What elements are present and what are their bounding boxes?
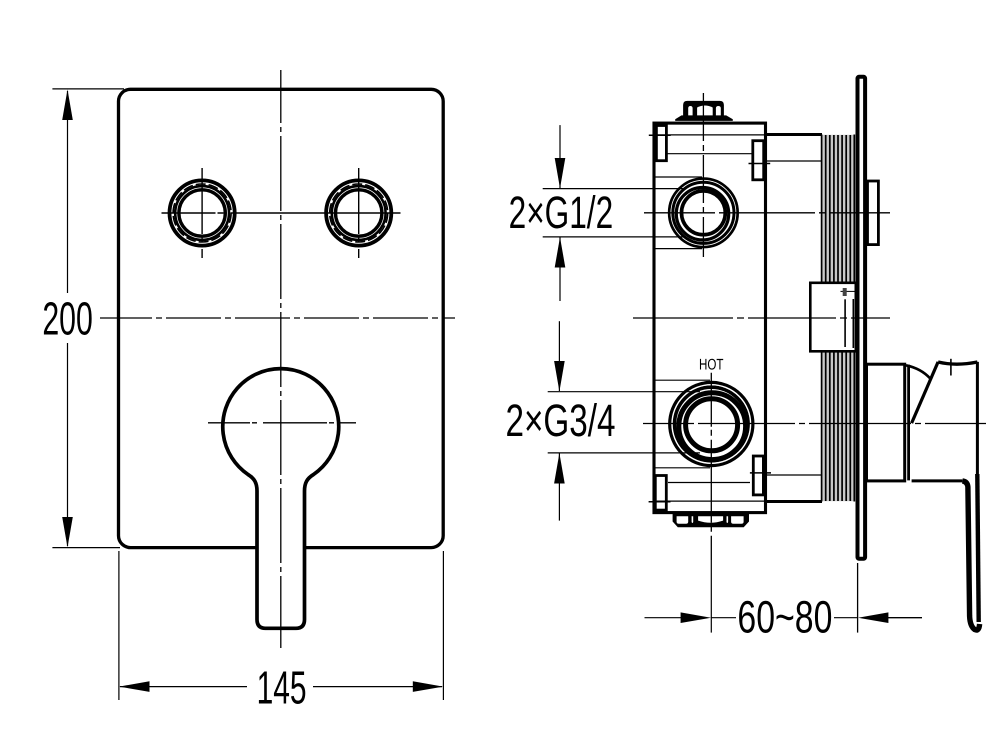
right hole vertical centerline bbox=[358, 168, 360, 258]
bottom port boss tangent lines bbox=[655, 379, 710, 381]
dim 145 right extension line bbox=[442, 551, 444, 700]
body inner line bottom bbox=[668, 482, 750, 484]
dim 200 arrow down bbox=[62, 517, 73, 547]
left hole vertical centerline bbox=[201, 168, 203, 258]
adjuster block over threads bbox=[810, 283, 861, 352]
dim 145 left extension line bbox=[118, 551, 120, 700]
dim 60~80 right arrow tail bbox=[886, 617, 922, 619]
connecting cylinder top lines bbox=[766, 133, 823, 136]
threaded section bbox=[822, 135, 855, 501]
svg-text:HOT: HOT bbox=[699, 357, 724, 374]
dim 200 top extension line bbox=[52, 88, 124, 90]
dim 145 line right bbox=[313, 686, 442, 688]
top port boss tangent lines bbox=[654, 176, 702, 178]
dim 2xG1/2 arrow down bbox=[555, 158, 566, 188]
connecting cylinder bottom lines bbox=[766, 500, 823, 503]
dim 200 line upper bbox=[67, 91, 69, 293]
top cap hex screw bbox=[675, 101, 733, 123]
dim 200 bottom extension line bbox=[52, 547, 120, 549]
centerline G1/2 horizontal bbox=[644, 212, 890, 214]
front horizontal centerline bbox=[100, 317, 455, 319]
svg-text:2×G1/2: 2×G1/2 bbox=[509, 187, 614, 238]
dim 60~80 line stub right bbox=[834, 617, 858, 619]
knob horizontal centerline bbox=[208, 422, 356, 424]
svg-text:2×G3/4: 2×G3/4 bbox=[506, 395, 616, 446]
dim 2xG3/4 arrow down bbox=[554, 361, 565, 392]
dim 60~80 left arrow bbox=[681, 612, 711, 623]
lever arm bbox=[962, 481, 979, 630]
front vertical centerline bbox=[280, 70, 282, 648]
centerline top port vertical bbox=[702, 93, 704, 257]
dim 2xG1/2 arrow up bbox=[555, 237, 566, 267]
port G1/2 circles bbox=[669, 179, 737, 247]
svg-text:200: 200 bbox=[42, 293, 93, 345]
dim 2xG3/4 arrow up bbox=[554, 453, 565, 483]
front plate bbox=[119, 89, 444, 547]
port G3/4 circles bbox=[670, 382, 753, 465]
dim 2xG3/4 arrow lines bbox=[558, 321, 560, 391]
bottom-left mounting tab bbox=[655, 476, 666, 511]
dim 145 arrow right bbox=[413, 681, 443, 692]
centerline body middle horizontal bbox=[633, 317, 890, 319]
top-right mounting tab bbox=[753, 141, 764, 180]
centerline bottom port vertical bbox=[710, 373, 712, 560]
handle top tick bbox=[950, 359, 952, 376]
handle base ring bbox=[907, 365, 910, 481]
dim 60~80 right extension bbox=[857, 563, 859, 633]
dim 200 arrow up bbox=[62, 90, 73, 121]
left hole circle bbox=[170, 180, 235, 245]
centerline G3/4 / handle axis bbox=[643, 423, 986, 425]
handle base bbox=[867, 364, 905, 481]
wall plate bbox=[858, 77, 866, 559]
lever knob and stem silhouette bbox=[223, 369, 339, 629]
svg-text:145: 145 bbox=[257, 662, 307, 714]
dim 60~80 line stub left bbox=[711, 617, 736, 619]
wall plate tab bbox=[868, 181, 879, 245]
dim 2xG1/2 arrow lines bbox=[559, 125, 561, 188]
bottom-right mounting tab bbox=[753, 456, 763, 495]
valve body bbox=[654, 123, 766, 512]
dim 200 line lower bbox=[67, 343, 69, 546]
dim 145 arrow left bbox=[119, 681, 149, 692]
dim 2xG1/2 leader lines bbox=[543, 188, 686, 190]
dim 2xG3/4 leader lines bbox=[548, 391, 700, 393]
svg-text:60~80: 60~80 bbox=[737, 592, 832, 643]
body inner line top bbox=[667, 153, 753, 155]
holes horizontal centerline bbox=[162, 212, 401, 214]
dim 60~80 left arrow tail bbox=[645, 617, 684, 619]
bottom cap nut bbox=[673, 514, 749, 528]
dim 60~80 left extension (port centerline continues) bbox=[710, 560, 712, 633]
dim 145 line left bbox=[120, 686, 247, 688]
right hole circle bbox=[326, 180, 391, 245]
handle collar arc bbox=[906, 365, 930, 378]
top-left mounting tab bbox=[656, 126, 666, 161]
handle head bbox=[912, 362, 978, 481]
dim 60~80 right arrow bbox=[858, 612, 888, 623]
